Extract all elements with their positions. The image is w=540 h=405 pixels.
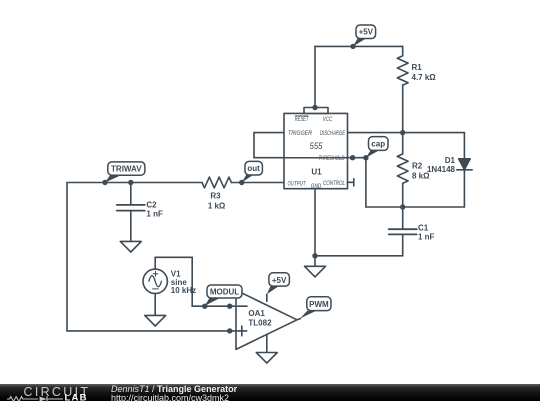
net flag MODUL <box>205 285 242 306</box>
node discharge/R1 <box>400 130 405 135</box>
wire R2 bottom lead <box>402 183 404 207</box>
node +5V attach <box>350 44 355 49</box>
wire cap node vertical <box>365 158 367 207</box>
wire D1 top lead <box>463 133 465 159</box>
label R2 value <box>412 162 430 181</box>
label OA1 value <box>248 309 272 328</box>
node MODUL attach <box>202 304 207 309</box>
resistor R3 <box>202 177 231 188</box>
ground under op-amp <box>256 353 277 364</box>
wire R3 to 555 OUTPUT <box>231 182 284 184</box>
wire op-amp V+ <box>266 294 268 301</box>
wire trigger loop vertical <box>253 133 255 158</box>
svg-text:out: out <box>247 164 260 173</box>
footer text <box>111 385 237 402</box>
svg-text:OA1: OA1 <box>248 309 265 318</box>
svg-text:THRESHOLD: THRESHOLD <box>319 155 345 162</box>
svg-text:D1: D1 <box>445 156 456 165</box>
wire C1 top lead <box>402 207 404 229</box>
svg-text:1 kΩ: 1 kΩ <box>208 202 226 211</box>
svg-text:R3: R3 <box>210 192 221 201</box>
node op-amp inv pin <box>227 304 232 309</box>
wire discharge node horizontal <box>348 132 465 134</box>
wire +5V rail top horizontal <box>315 45 403 47</box>
wire V1 loop right vertical <box>191 257 193 306</box>
node cap attach <box>363 155 368 160</box>
ground under 555 <box>305 266 326 277</box>
svg-text:C1: C1 <box>418 223 429 232</box>
op-amp minus mark <box>238 305 248 307</box>
svg-text:1N4148: 1N4148 <box>427 165 456 174</box>
IC U1 555 body <box>284 108 348 189</box>
svg-text:VCC: VCC <box>323 116 333 123</box>
svg-text:PWM: PWM <box>309 300 329 309</box>
wire V1 top pin <box>154 257 156 269</box>
wire threshold crossing <box>254 157 366 159</box>
label R1 value <box>412 63 437 82</box>
svg-text:+5V: +5V <box>272 276 287 285</box>
wire V1 bottom pin <box>154 294 156 316</box>
label R3 value <box>208 192 226 211</box>
svg-text:U1: U1 <box>311 168 322 177</box>
svg-text:TRIWAV: TRIWAV <box>111 165 142 174</box>
wire V1 loop top <box>155 256 192 258</box>
wire C1 bottom lead <box>402 234 404 255</box>
node gnd run <box>312 253 317 258</box>
wire op-amp output stub <box>297 319 300 320</box>
footer bar <box>0 384 540 401</box>
wire R2 top lead <box>402 133 404 154</box>
svg-text:RESET: RESET <box>295 116 309 123</box>
node cap/R2/C1 <box>400 204 405 209</box>
wire cap node horizontal <box>366 206 465 208</box>
wire C2 top lead <box>130 183 132 205</box>
wire C2 bottom lead <box>130 211 132 242</box>
label C2 value <box>146 201 163 219</box>
svg-text:OUTPUT: OUTPUT <box>288 181 307 188</box>
pin label RESET <box>295 116 309 123</box>
svg-text:555: 555 <box>310 141 324 151</box>
wire +5V rail left vertical to 555 bump <box>314 46 316 107</box>
svg-text:LAB: LAB <box>65 392 88 403</box>
wire left feedback vertical <box>66 183 68 331</box>
svg-text:CONTROL: CONTROL <box>323 180 345 187</box>
svg-text:4.7 kΩ: 4.7 kΩ <box>412 73 437 82</box>
net flag out <box>242 161 263 182</box>
label C1 value <box>418 223 435 241</box>
op-amp plus mark <box>237 326 247 336</box>
wire lower feedback horizontal <box>67 330 236 332</box>
wire ground stub 555 <box>314 256 316 266</box>
node threshold pin <box>350 155 355 160</box>
net flag TRIWAV <box>105 162 145 183</box>
CircuitLab logo <box>0 383 110 405</box>
node 555 bump top <box>312 105 317 110</box>
svg-text:MODUL: MODUL <box>210 288 239 297</box>
node out attach <box>239 180 244 185</box>
op-amp OA1 body <box>236 290 297 349</box>
svg-text:C2: C2 <box>146 201 157 210</box>
resistor R1 <box>397 56 408 85</box>
svg-text:R2: R2 <box>412 162 423 171</box>
capacitor C1 <box>389 229 417 234</box>
voltage source V1 <box>143 269 167 293</box>
diode D1 <box>457 159 472 170</box>
svg-text:1 nF: 1 nF <box>146 209 163 218</box>
wire trigger row left <box>254 132 284 134</box>
svg-text:cap: cap <box>371 140 385 149</box>
ground under V1 <box>145 315 166 326</box>
svg-text:1 nF: 1 nF <box>418 232 435 241</box>
node op-amp noninv pin <box>227 328 232 333</box>
wire to op-amp inverting input <box>192 305 236 307</box>
wire 555 GND pin down <box>314 189 316 256</box>
net flag +5V top <box>353 25 376 46</box>
svg-text:GND: GND <box>311 183 322 190</box>
svg-text:TL082: TL082 <box>248 319 272 328</box>
wire +5V rail to R1 top <box>402 46 404 55</box>
net flag +5V op-amp <box>267 273 290 295</box>
wire D1 bottom lead <box>463 170 465 207</box>
capacitor C2 <box>117 205 145 211</box>
wire op-amp V- down <box>266 335 268 353</box>
resistor R2 <box>397 154 408 183</box>
svg-text:R1: R1 <box>412 63 423 72</box>
svg-text:DISCHARGE: DISCHARGE <box>320 130 345 137</box>
node TRIWAV attach <box>102 180 107 185</box>
label V1 value <box>171 270 196 296</box>
label D1 value <box>427 156 456 174</box>
svg-text:TRIGGER: TRIGGER <box>288 130 312 137</box>
ground under C2 <box>120 241 141 252</box>
net flag cap <box>366 137 388 158</box>
wire threshold overdraw across 555 <box>254 157 366 159</box>
net flag PWM <box>300 297 331 319</box>
wire ground run under C1 <box>315 255 403 257</box>
wire control pin stub <box>348 179 354 186</box>
node C2 branch <box>128 180 133 185</box>
wire main output row <box>67 182 202 184</box>
svg-text:+5V: +5V <box>359 28 374 37</box>
svg-text:10 kHz: 10 kHz <box>171 286 196 295</box>
wire R1 bottom lead <box>402 85 404 133</box>
